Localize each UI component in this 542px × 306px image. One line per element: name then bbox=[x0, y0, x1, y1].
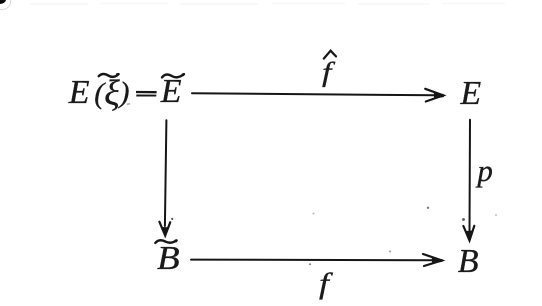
equals sign bars bbox=[136, 91, 157, 93]
tilde over second E bbox=[162, 74, 184, 77]
left arrow : head bbox=[159, 222, 170, 236]
arrow p : head ink pool bbox=[466, 231, 473, 241]
node E(xi)=E~ : ) bbox=[120, 78, 130, 108]
label f-hat bbox=[322, 59, 331, 86]
node B~ bottom left bbox=[157, 242, 180, 276]
arrow p : head bbox=[463, 226, 474, 241]
node E(xi)=E~ : ( bbox=[94, 79, 104, 109]
left arrow : head ink pool bbox=[162, 228, 168, 236]
scan blob top-left corner bbox=[0, 0, 6, 4]
arrow f-hat : head bbox=[425, 89, 443, 102]
tilde over B bbox=[155, 240, 176, 243]
label f bottom bbox=[319, 269, 329, 299]
node E(xi)=E~ : xi bbox=[104, 75, 119, 111]
arrow f : shaft bbox=[191, 259, 434, 262]
speckle dots bbox=[116, 73, 497, 265]
arrow f : tip ink blob bbox=[433, 258, 443, 262]
hat over f bbox=[324, 51, 336, 59]
faint top-edge scan remnants bbox=[30, 3, 505, 6]
node E top right bbox=[460, 77, 481, 111]
tilde over xi bbox=[99, 74, 119, 77]
arrow f-hat : tip ink blob bbox=[435, 94, 444, 98]
node B bottom right bbox=[458, 245, 479, 279]
node E(xi)=E~ : letter E bbox=[69, 76, 90, 110]
arrow p : shaft bbox=[469, 120, 472, 232]
node E(xi)=E~ : second E bbox=[161, 75, 182, 109]
arrow f-hat : shaft bbox=[192, 93, 437, 95]
left arrow : shaft bbox=[165, 120, 167, 226]
label p bbox=[477, 155, 493, 186]
tiny dash after paren bbox=[127, 103, 130, 105]
arrow f : head bbox=[423, 254, 442, 266]
